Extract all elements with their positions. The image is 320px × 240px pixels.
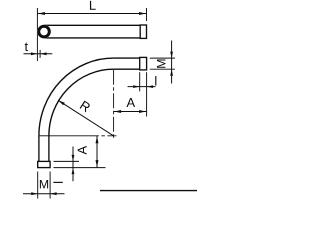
node: pipe cross-section circle (end view, thick wall ring) (37, 25, 51, 39)
wire: M-bottom extension line right (49, 172, 51, 199)
node l-right dimension line (128, 86, 156, 88)
node: pipe socket (right end of straight pipe) (140, 25, 146, 38)
wire: L dimension extension line right (146, 8, 148, 21)
node L-dim: dimension line with arrows (37, 13, 146, 15)
wire: bend vertical leg left outline (38, 136, 40, 162)
node A-leg dimension line (96, 136, 98, 168)
node t-dim: wall thickness dimension (24, 53, 53, 55)
node label l (right) (155, 76, 156, 85)
wire: straight pipe bottom outline (44, 37, 140, 39)
wire: bend horizontal arm top outline (114, 57, 140, 59)
wire: l-leg extension line top (54, 160, 80, 162)
wire: M-bottom extension line left (37, 172, 39, 199)
node label A (right) (126, 98, 135, 107)
wire: l-leg / A-leg extension line bottom (54, 167, 106, 169)
node A-right dimension line (114, 111, 147, 113)
node M-right dimension line (171, 41, 173, 84)
node label l (leg, rotated) (53, 182, 62, 183)
node label M (right, rotated) (157, 59, 165, 67)
node label R (80, 101, 91, 113)
wire: bend inner arc (49, 69, 114, 136)
wire: tangent line across leg at arc start (39, 135, 49, 137)
wire: A/l-right extension line (pipe end) (146, 72, 148, 116)
wire: M-right extension line top (150, 57, 175, 59)
node label L (90, 1, 96, 10)
node M-bottom dimension line (23, 193, 65, 195)
wire: l-right extension line left (139, 72, 141, 91)
wire: vertical centerline from arm to arc center (113, 70, 115, 140)
wire: horizontal centerline to arc center (49, 135, 117, 137)
wire: straight pipe top outline (44, 24, 140, 26)
wire: table/border rule bottom right (100, 190, 197, 192)
node label t (25, 43, 28, 52)
wire: L dimension extension line left (36, 8, 38, 61)
wire: bend vertical leg right outline (48, 136, 50, 162)
wire: M-right extension line bottom (150, 68, 175, 70)
wire: bend outer arc (39, 58, 114, 136)
node: bend arm socket (right end) (140, 57, 147, 70)
node label M (bottom) (40, 180, 48, 188)
wire: bend horizontal arm bottom outline (114, 68, 140, 70)
node l-leg dimension line (72, 147, 74, 182)
node: bend leg socket (bottom end) (38, 161, 50, 167)
node R-dim: radius line (58, 100, 113, 136)
node label A (leg, rotated) (78, 146, 87, 155)
